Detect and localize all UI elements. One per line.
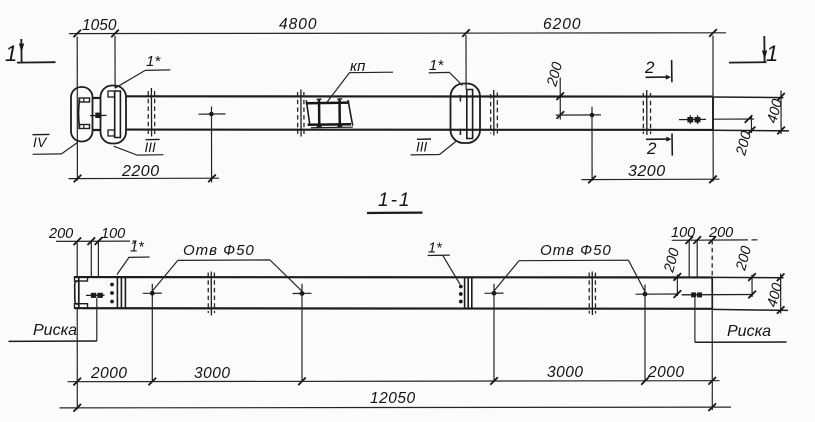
rivet feature 1* bottom-right [459,277,472,308]
svg-text:2: 2 [644,58,655,77]
svg-text:100: 100 [101,226,125,242]
svg-text:1*: 1* [429,57,444,74]
svg-text:6200: 6200 [543,16,581,33]
left end channel cap [75,277,88,308]
vertical dim 200 at x=560 [544,61,566,120]
section mark 1 left [5,39,56,66]
dimension 3200 [582,163,720,183]
svg-text:III: III [416,140,428,155]
rivet feature 1* bottom-left [110,277,125,308]
vertical dim 200 at hole [661,247,683,298]
anchor mark bottom-left [86,293,105,341]
dimension line top (1050/4800/6200) [69,16,726,37]
dimension 100/200 top-right of section [671,225,758,277]
seam at x=592 bottom view [589,272,595,316]
svg-text:Риска: Риска [33,322,77,339]
seam at x=301 [298,90,304,137]
svg-text:1*: 1* [428,241,443,257]
label Otv F50 left with leaders [152,242,302,291]
svg-text:200: 200 [48,226,73,242]
dimension line 2000/3000/3000/2000 [68,364,720,385]
svg-text:Отв Ф50: Отв Ф50 [540,242,612,259]
svg-text:1*: 1* [130,240,145,256]
dimension 12050 [60,390,732,412]
vertical dim 400 right top view [764,91,786,135]
anchor mark bottom-right [682,292,754,342]
hole Otv50 #2 [293,284,312,381]
end plate oval with plate 1* [101,86,127,144]
svg-text:2000: 2000 [647,364,684,381]
label Riska left [9,322,97,341]
label 1* bottom-left with leader [117,240,150,275]
section mark 1 right [729,36,778,66]
label 1* bottom-right with leader [428,241,460,285]
vertical dim 200 right top view [713,115,755,158]
svg-text:1: 1 [5,41,17,66]
svg-text:IV: IV [33,135,48,150]
svg-text:1-1: 1-1 [378,190,411,211]
label kp with leader [326,58,393,104]
anchor mark between end plates [90,113,107,118]
extension line x=77 [76,37,78,181]
svg-text:3000: 3000 [194,365,230,382]
channel section inside oval [79,98,90,129]
svg-text:III: III [145,140,157,155]
svg-text:4800: 4800 [279,16,317,33]
hole Otv50 #4 [636,285,679,381]
svg-text:3000: 3000 [547,364,583,381]
svg-text:1050: 1050 [82,17,117,34]
hole Otv50 #1 [143,284,162,382]
svg-text:Риска: Риска [727,323,771,340]
section mark 2 lower [646,133,672,158]
dimension 200/100 top-left of section [48,226,137,277]
extension line x=466 [465,35,467,90]
svg-text:2200: 2200 [121,163,160,180]
svg-text:Отв Ф50: Отв Ф50 [183,242,255,259]
end plate oval IV [71,87,93,142]
dimension 2200 [69,163,220,182]
extension line x=712 bottom [711,309,713,410]
svg-text:12050: 12050 [370,390,416,407]
beam top view outline [92,96,789,131]
label III right with leader [411,139,456,155]
svg-text:1*: 1* [146,53,161,70]
seam at x=647 [643,90,650,135]
centre cross mark x=211 [199,107,226,183]
vertical dim 400 right section [764,274,786,314]
section title 1-1 [367,190,423,213]
vertical dim 200 at anchor right [733,245,756,299]
extension line x=77 bottom [76,308,78,409]
label 1* left with leader [115,53,170,88]
section mark 2 upper [644,58,672,82]
anchor mark right end top view [679,115,706,124]
svg-text:3200: 3200 [628,163,666,180]
label Otv F50 right with leaders [494,242,645,292]
label III left with leader [114,139,164,155]
svg-text:200: 200 [708,225,733,241]
label 1* right with leader [429,57,463,86]
vertical plate inside right oval [460,90,473,139]
end plate oval right with plate 1* [451,84,481,144]
label Riska right [695,323,787,342]
beam section 1-1 outline [75,277,789,310]
label IV with leader [33,134,78,154]
seam at x=151 [148,88,155,137]
svg-text:1: 1 [766,41,778,66]
svg-text:2000: 2000 [90,365,127,382]
vertical plate inside oval 2 [108,91,121,138]
svg-text:100: 100 [671,225,695,241]
seam at x=211 bottom view [208,272,214,316]
centre cross mark x=592 [556,107,601,181]
svg-text:2: 2 [646,139,657,158]
extension line x=115 [114,36,116,88]
hole Otv50 #3 [485,284,504,381]
seam at x=494 [491,90,498,136]
reinforcing cage kp [306,99,353,128]
extension line x=713 [712,36,714,182]
